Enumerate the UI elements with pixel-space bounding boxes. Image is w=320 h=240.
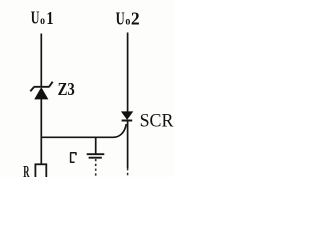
svg-text:U: U bbox=[31, 8, 40, 28]
zener Z3 cathode bar bbox=[34, 86, 50, 88]
wire: Uo2 down to SCR anode bbox=[127, 33, 129, 113]
wire: cathode faint continuation bbox=[127, 168, 129, 177]
svg-text:Z3: Z3 bbox=[58, 79, 75, 99]
wire: capacitor stem from gate wire bbox=[95, 137, 97, 154]
label C bbox=[71, 152, 77, 163]
svg-text:o: o bbox=[40, 15, 45, 27]
zener Z3 triangle (anode, pointing up) bbox=[35, 88, 48, 99]
capacitor C bottom plate bbox=[89, 157, 102, 159]
capacitor C top plate bbox=[87, 153, 105, 155]
wire: zener anode down to junction and resistor bbox=[40, 99, 42, 165]
svg-text:2: 2 bbox=[131, 9, 140, 29]
wire: horizontal gate wire with curve up to SCR gate bbox=[41, 124, 127, 137]
svg-text:R: R bbox=[23, 162, 30, 177]
node Uo2 label bbox=[116, 9, 140, 29]
zener Z3 bar right bent end bbox=[49, 82, 52, 87]
SCR triangle (anode, pointing down) bbox=[122, 112, 133, 119]
svg-text:o: o bbox=[125, 16, 130, 28]
svg-text:1: 1 bbox=[46, 8, 53, 28]
svg-text:SCR: SCR bbox=[140, 111, 174, 131]
resistor R body bbox=[35, 164, 46, 178]
wire: SCR cathode down to bottom edge bbox=[127, 121, 129, 168]
wire: Uo1 down to zener cathode bbox=[40, 34, 42, 88]
svg-text:U: U bbox=[116, 9, 125, 29]
zener Z3 bar left bent end bbox=[30, 87, 34, 91]
node Uo1 label bbox=[31, 8, 54, 28]
SCR cathode bar bbox=[122, 120, 133, 122]
wire: capacitor lower stub (faint/dotted) bbox=[95, 159, 97, 176]
